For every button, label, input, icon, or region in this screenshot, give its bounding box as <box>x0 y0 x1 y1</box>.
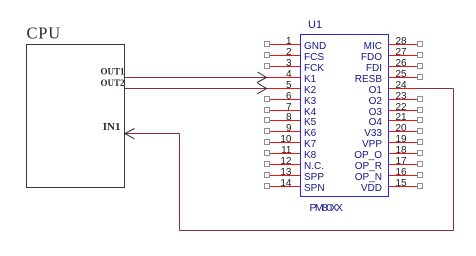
svg-text:CPU: CPU <box>27 24 62 43</box>
svg-text:FCS: FCS <box>304 52 324 63</box>
pin 27 FDO (right) <box>361 47 423 63</box>
svg-text:SPP: SPP <box>304 172 324 183</box>
pin 6 K3 (left) <box>265 91 317 107</box>
svg-text:25: 25 <box>396 69 408 80</box>
svg-text:K2: K2 <box>304 85 317 96</box>
wire OUT2 to U1 pin 5 <box>125 88 266 90</box>
svg-text:8: 8 <box>286 112 292 123</box>
svg-text:FDI: FDI <box>366 63 382 74</box>
pin 25 RESB (right) <box>355 69 423 85</box>
svg-text:23: 23 <box>396 91 408 102</box>
svg-text:OP_R: OP_R <box>355 161 382 172</box>
svg-text:17: 17 <box>396 156 408 167</box>
svg-text:2: 2 <box>286 47 292 58</box>
svg-text:SPN: SPN <box>304 183 325 194</box>
pin 12 N.C. (left) <box>265 156 325 172</box>
svg-text:IN1: IN1 <box>103 121 121 133</box>
svg-text:K8: K8 <box>304 150 317 161</box>
wire bottom segment <box>180 230 454 232</box>
pin 23 O2 (right) <box>369 91 423 107</box>
pin 17 OP_R (right) <box>355 156 423 172</box>
arrowhead at U1 pin 4 <box>257 72 267 83</box>
U1 value label PM80XX <box>310 202 343 214</box>
CPU pin IN1 label <box>103 121 121 133</box>
svg-text:11: 11 <box>281 145 292 156</box>
svg-text:18: 18 <box>396 145 408 156</box>
svg-text:24: 24 <box>396 80 408 91</box>
wire OUT1 to U1 pin 4 <box>125 77 266 79</box>
svg-text:OUT1: OUT1 <box>100 67 125 77</box>
CPU label <box>27 24 62 43</box>
svg-text:10: 10 <box>280 134 292 145</box>
svg-text:V33: V33 <box>364 128 382 139</box>
pin 16 OP_N (right) <box>355 167 423 183</box>
svg-text:27: 27 <box>396 47 408 58</box>
wire vertical left segment <box>179 134 181 231</box>
pin 7 K4 (left) <box>265 102 317 118</box>
pin 20 V33 (right) <box>364 123 422 139</box>
svg-text:28: 28 <box>396 36 408 47</box>
svg-text:21: 21 <box>396 112 408 123</box>
svg-text:N.C.: N.C. <box>304 161 324 172</box>
svg-text:RESB: RESB <box>355 74 383 85</box>
CPU pin OUT1 label <box>100 67 125 77</box>
svg-text:MIC: MIC <box>364 41 382 52</box>
pin 4 K1 (left) <box>266 69 317 85</box>
svg-text:9: 9 <box>286 123 292 134</box>
svg-text:14: 14 <box>280 178 292 189</box>
svg-text:15: 15 <box>396 178 408 189</box>
svg-text:K3: K3 <box>304 96 317 107</box>
pin 10 K7 (left) <box>265 134 317 150</box>
svg-text:O1: O1 <box>369 85 383 96</box>
svg-text:O2: O2 <box>369 96 383 107</box>
svg-text:GND: GND <box>304 41 326 52</box>
pin 24 O1 (right) <box>369 80 420 96</box>
svg-text:6: 6 <box>286 91 292 102</box>
pin 26 FDI (right) <box>366 58 423 74</box>
pin 9 K6 (left) <box>265 123 317 139</box>
IC U1 body <box>301 35 389 197</box>
svg-text:FDO: FDO <box>361 52 382 63</box>
svg-text:PM80XX: PM80XX <box>310 202 343 214</box>
svg-text:OP_O: OP_O <box>354 150 382 161</box>
svg-text:16: 16 <box>396 167 408 178</box>
pin 21 O4 (right) <box>369 112 423 128</box>
svg-text:K7: K7 <box>304 139 317 150</box>
svg-text:4: 4 <box>286 69 292 80</box>
U1 reference designator <box>308 19 322 31</box>
svg-text:OP_N: OP_N <box>355 172 382 183</box>
svg-text:19: 19 <box>396 134 408 145</box>
pin 3 FCK (left) <box>265 58 325 74</box>
pin 13 SPP (left) <box>265 167 325 183</box>
svg-text:K6: K6 <box>304 128 317 139</box>
svg-text:O4: O4 <box>369 117 383 128</box>
svg-text:VDD: VDD <box>361 183 382 194</box>
pin 18 OP_O (right) <box>354 145 422 161</box>
pin 11 K8 (left) <box>265 145 317 161</box>
arrowhead at CPU IN1 <box>125 129 135 140</box>
wire U1 pin 24 to CPU IN1: right segment <box>420 88 454 90</box>
svg-text:12: 12 <box>280 156 292 167</box>
svg-text:13: 13 <box>280 167 292 178</box>
svg-text:26: 26 <box>396 58 408 69</box>
svg-text:VPP: VPP <box>362 139 382 150</box>
pin 14 SPN (left) <box>265 178 325 194</box>
wire vertical right segment <box>453 89 455 231</box>
pin 19 VPP (right) <box>362 134 423 150</box>
pin 2 FCS (left) <box>265 47 325 63</box>
svg-text:1: 1 <box>286 36 292 47</box>
svg-text:K1: K1 <box>304 74 317 85</box>
svg-text:U1: U1 <box>308 19 322 31</box>
pin 8 K5 (left) <box>265 112 317 128</box>
pin 1 GND (left) <box>265 36 327 52</box>
svg-text:OUT2: OUT2 <box>100 78 125 88</box>
svg-text:20: 20 <box>396 123 408 134</box>
pin 5 K2 (left) <box>266 80 317 96</box>
CPU pin OUT2 label <box>100 78 125 88</box>
svg-text:FCK: FCK <box>304 63 324 74</box>
CPU block <box>27 45 125 188</box>
svg-text:K5: K5 <box>304 117 317 128</box>
svg-text:3: 3 <box>286 58 292 69</box>
svg-text:5: 5 <box>286 80 292 91</box>
wire into CPU IN1 <box>125 133 180 135</box>
pin 15 VDD (right) <box>361 178 423 194</box>
pin 28 MIC (right) <box>364 36 423 52</box>
arrowhead at U1 pin 5 <box>257 83 267 94</box>
pin 22 O3 (right) <box>369 102 423 118</box>
